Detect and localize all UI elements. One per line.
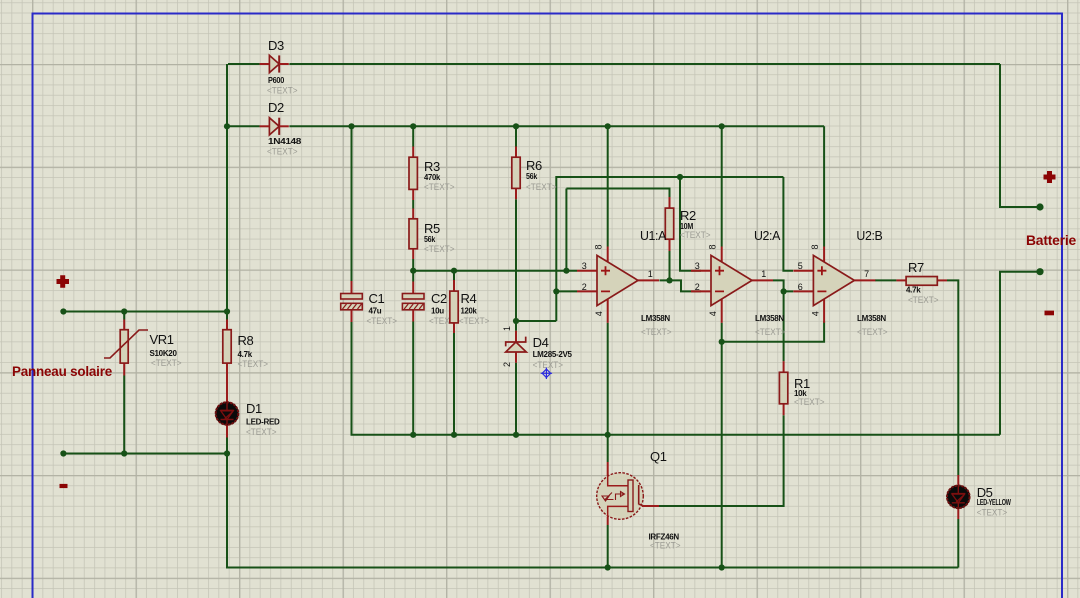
pin stub Q1 source bbox=[607, 517, 609, 525]
pin stub R6 top bbox=[515, 147, 517, 158]
LED D5 bbox=[947, 485, 971, 509]
resistor R3 bbox=[409, 157, 417, 189]
wire D4 top row y=321 bbox=[516, 320, 556, 322]
svg-text:8: 8 bbox=[810, 244, 820, 249]
wire U2:A pin8 drop bbox=[721, 126, 723, 246]
junction dots solar minus row bbox=[60, 450, 66, 456]
wire VR1 column bbox=[123, 312, 125, 320]
voltage reference D4 zener symbol bbox=[506, 337, 526, 347]
pin stub R3 top bbox=[412, 147, 414, 158]
svg-text:4: 4 bbox=[810, 311, 820, 316]
svg-text:1N4148: 1N4148 bbox=[268, 137, 302, 146]
svg-text:LM358N: LM358N bbox=[857, 314, 886, 323]
junction dots ground rail bbox=[410, 432, 416, 438]
svg-text:U2:B: U2:B bbox=[856, 228, 882, 243]
wire node to R1 top bbox=[783, 291, 785, 361]
op-amp U2:B power pin 4 stub bbox=[823, 299, 825, 323]
svg-text:<TEXT>: <TEXT> bbox=[977, 508, 1008, 518]
wire node row y=270.7 R5/C2/R4 to U1:A pin3 bbox=[413, 270, 577, 272]
resistor R7 bbox=[906, 277, 937, 286]
svg-text:2: 2 bbox=[502, 362, 512, 367]
wire C1 top drop bbox=[351, 126, 353, 281]
wire R6 top drop bbox=[515, 126, 517, 146]
op-amp U2:A plus minus marks bbox=[715, 266, 724, 291]
pin stub R5 bottom bbox=[412, 249, 414, 259]
wire U2:B pin8 drop bbox=[823, 126, 825, 246]
wire C2 top stub bbox=[412, 271, 414, 282]
capacitor C2 bbox=[402, 294, 424, 300]
svg-text:4: 4 bbox=[708, 311, 718, 316]
pin stubs VR1 bbox=[123, 320, 125, 330]
pin stubs R4 bbox=[453, 280, 455, 291]
svg-text:<TEXT>: <TEXT> bbox=[650, 541, 681, 551]
junction dot U2A out node bbox=[781, 288, 787, 294]
op-amp U1:A input pin stubs bbox=[577, 270, 597, 272]
svg-text:<TEXT>: <TEXT> bbox=[246, 427, 277, 437]
op-amp U1:A power pin 4 stub bbox=[607, 299, 609, 323]
wire Q1 source to bottom rail bbox=[607, 525, 609, 568]
svg-text:<TEXT>: <TEXT> bbox=[533, 360, 564, 370]
wire C2 bottom drop bbox=[412, 322, 414, 435]
wire R2 bottom to U1:A output node bbox=[669, 251, 671, 280]
wire solar plus row y=311.5 bbox=[63, 311, 227, 313]
solar minus symbol bbox=[60, 484, 68, 488]
wire battery minus branch bbox=[1000, 272, 1040, 435]
svg-text:R6: R6 bbox=[526, 158, 542, 173]
svg-text:LED-YELLOW: LED-YELLOW bbox=[977, 498, 1012, 507]
svg-text:D4: D4 bbox=[533, 335, 549, 350]
op-amp U1:A triangle bbox=[597, 255, 638, 305]
pin stubs D5 bbox=[957, 475, 959, 485]
junction dot D4 node bbox=[513, 318, 519, 324]
pin stub R1 bottom bbox=[783, 404, 785, 415]
wire R7 right to D5 column bbox=[947, 280, 958, 475]
wire D5 bottom stub bbox=[957, 519, 959, 568]
op-amp U1:A plus minus marks bbox=[601, 266, 610, 291]
wire solar minus row y=453.5 bbox=[63, 453, 227, 455]
solar plus symbol bbox=[57, 275, 70, 288]
svg-text:3: 3 bbox=[582, 261, 587, 271]
wire R6 bottom to D4 node bbox=[515, 199, 517, 331]
op-amp U2:A power pin 8 stub bbox=[721, 247, 723, 263]
svg-text:4: 4 bbox=[594, 311, 604, 316]
svg-text:LM285-2V5: LM285-2V5 bbox=[533, 350, 573, 359]
svg-text:56k: 56k bbox=[424, 235, 436, 244]
pin stub Q1 drain bbox=[607, 462, 609, 476]
svg-text:<TEXT>: <TEXT> bbox=[459, 316, 490, 326]
wire y=188.5 to R2 top bbox=[566, 189, 669, 198]
MOSFET Q1 circle bbox=[597, 473, 644, 520]
svg-text:6: 6 bbox=[798, 282, 803, 292]
resistor R8 bbox=[223, 330, 231, 363]
svg-text:1: 1 bbox=[502, 326, 512, 331]
pin stubs C2 bbox=[412, 282, 414, 294]
wire D2 cathode V+ rail y=126.3 bbox=[227, 125, 260, 127]
svg-text:120k: 120k bbox=[461, 307, 478, 316]
capacitor C1 bbox=[341, 294, 363, 300]
diode D3 bbox=[269, 55, 279, 72]
svg-text:LM358N: LM358N bbox=[755, 314, 784, 323]
op-amp U2:B output stub bbox=[854, 279, 875, 281]
pin stubs D4 bbox=[515, 331, 517, 342]
svg-text:<TEXT>: <TEXT> bbox=[424, 244, 455, 254]
junction dot reference net bbox=[677, 174, 683, 180]
pin stubs R7 bbox=[896, 279, 906, 281]
wire R1 bottom to Q1 gate bbox=[659, 415, 784, 506]
svg-text:2: 2 bbox=[582, 282, 587, 292]
wire U1:A pin2 branch bbox=[556, 290, 577, 292]
svg-text:Batterie: Batterie bbox=[1026, 233, 1077, 248]
pin stubs R8 bbox=[226, 320, 228, 330]
svg-text:<TEXT>: <TEXT> bbox=[151, 358, 182, 368]
blue origin marker bbox=[541, 368, 552, 379]
wire R5 bottom stub bbox=[412, 259, 414, 271]
svg-text:1: 1 bbox=[761, 269, 766, 279]
svg-text:<TEXT>: <TEXT> bbox=[755, 327, 786, 337]
pin stubs C1 bbox=[351, 281, 353, 294]
op-amp U1:A power pin 8 stub bbox=[607, 247, 609, 263]
svg-text:<TEXT>: <TEXT> bbox=[526, 182, 557, 192]
resistor R4 bbox=[450, 291, 458, 323]
svg-text:LED-RED: LED-RED bbox=[246, 418, 280, 427]
op-amp U2:A input pin stubs bbox=[691, 270, 711, 272]
svg-text:1: 1 bbox=[648, 269, 653, 279]
pin stub Q1 gate bbox=[642, 505, 659, 507]
wire reference net y=177 bbox=[556, 177, 783, 321]
svg-text:VR1: VR1 bbox=[150, 332, 174, 347]
wire U1:A pin4 drop / Q1 drain column bbox=[607, 323, 609, 462]
svg-text:D1: D1 bbox=[246, 401, 262, 416]
svg-text:Q1: Q1 bbox=[650, 449, 667, 464]
LED D1 bbox=[215, 402, 239, 426]
wire D4 bottom drop bbox=[515, 363, 517, 435]
svg-text:<TEXT>: <TEXT> bbox=[424, 182, 455, 192]
svg-text:<TEXT>: <TEXT> bbox=[908, 295, 939, 305]
wire bottom rail y=567.5 bbox=[227, 454, 958, 568]
junction dots bottom rail bbox=[605, 564, 611, 570]
junction dots V+ rail bbox=[224, 123, 230, 129]
junction dots solar plus row bbox=[60, 308, 66, 314]
svg-text:U2:A: U2:A bbox=[754, 228, 781, 243]
svg-text:470k: 470k bbox=[424, 173, 441, 182]
wire x=566.4 from R2 row to pin3 row bbox=[565, 189, 567, 271]
svg-text:R8: R8 bbox=[238, 333, 254, 348]
svg-text:<TEXT>: <TEXT> bbox=[857, 327, 888, 337]
resistor R1 bbox=[779, 372, 787, 404]
pin stub R5 top bbox=[412, 209, 414, 219]
svg-text:56k: 56k bbox=[526, 172, 538, 181]
op-amp U2:A power pin 4 stub bbox=[721, 299, 723, 323]
wire U1:A pin8 drop bbox=[607, 126, 609, 246]
svg-text:2: 2 bbox=[695, 282, 700, 292]
wire R8 top stub bbox=[226, 312, 228, 320]
junction dot V- jog bbox=[719, 339, 725, 345]
wire R3 top drop bbox=[412, 126, 414, 146]
wire left column x=227 from D3 rail to solar plus node bbox=[226, 64, 228, 312]
battery plus symbol bbox=[1044, 171, 1056, 183]
resistor R5 bbox=[409, 219, 417, 249]
svg-text:<TEXT>: <TEXT> bbox=[367, 316, 398, 326]
junction dot U1 pin2 branch bbox=[553, 288, 559, 294]
svg-text:R4: R4 bbox=[461, 291, 477, 306]
wire right drop to battery plus bbox=[1000, 64, 1040, 207]
svg-text:4.7k: 4.7k bbox=[238, 350, 253, 359]
thermistor VR1 strike line bbox=[104, 330, 148, 358]
svg-text:8: 8 bbox=[594, 244, 604, 249]
op-amp U2:B power pin 8 stub bbox=[823, 247, 825, 263]
wire R4 bottom drop bbox=[453, 333, 455, 435]
svg-text:4.7k: 4.7k bbox=[906, 286, 921, 295]
svg-text:R3: R3 bbox=[424, 159, 440, 174]
thermistor VR1 body bbox=[120, 330, 128, 363]
svg-text:<TEXT>: <TEXT> bbox=[267, 147, 298, 157]
svg-text:<TEXT>: <TEXT> bbox=[267, 86, 298, 96]
pin stub D1 bottom bbox=[226, 425, 228, 438]
pin stub R2 bottom bbox=[669, 239, 671, 251]
svg-text:7: 7 bbox=[864, 269, 869, 279]
diode D2 bbox=[269, 118, 279, 135]
svg-text:3: 3 bbox=[695, 261, 700, 271]
svg-text:R2: R2 bbox=[680, 208, 696, 223]
svg-text:C2: C2 bbox=[431, 291, 447, 306]
op-amp U1:A output stub bbox=[638, 279, 659, 281]
op-amp U2:A output stub bbox=[752, 279, 773, 281]
resistor R6 bbox=[512, 157, 520, 188]
pin stub R3 bottom bbox=[412, 189, 414, 200]
wire U2:A pin4 drop to bottom rail bbox=[721, 323, 723, 568]
svg-text:8: 8 bbox=[708, 244, 718, 249]
wire x=783.4 drop to U2:B pin5 bbox=[783, 177, 793, 271]
svg-text:47u: 47u bbox=[369, 307, 382, 316]
op-amp U2:B plus minus marks bbox=[817, 266, 826, 291]
pin stub R6 bottom bbox=[515, 188, 517, 199]
svg-text:<TEXT>: <TEXT> bbox=[641, 327, 672, 337]
wire x=680 drop to U2:A pin3 bbox=[680, 177, 701, 271]
op-amp U2:B input pin stubs bbox=[793, 270, 813, 272]
svg-text:S10K20: S10K20 bbox=[150, 349, 178, 358]
svg-text:D3: D3 bbox=[268, 38, 284, 53]
svg-text:U1:A: U1:A bbox=[640, 228, 667, 243]
svg-text:<TEXT>: <TEXT> bbox=[794, 397, 825, 407]
wire U2:A output jog to U2:B pin6 bbox=[773, 280, 793, 291]
battery terminal dots bbox=[1036, 203, 1043, 210]
MOSFET Q1 internal symbol bbox=[608, 476, 628, 517]
svg-text:R5: R5 bbox=[424, 221, 440, 236]
svg-text:D2: D2 bbox=[268, 100, 284, 115]
junction dots pin3 row bbox=[410, 268, 416, 274]
wire U2:B output to R7 bbox=[875, 279, 896, 281]
svg-text:5: 5 bbox=[798, 261, 803, 271]
pin stub R2 top bbox=[669, 197, 671, 208]
svg-text:Panneau solaire: Panneau solaire bbox=[12, 364, 113, 379]
op-amp U2:B triangle bbox=[813, 255, 854, 305]
junction dot U1 output bbox=[666, 277, 672, 283]
svg-text:P600: P600 bbox=[268, 76, 285, 85]
svg-text:R7: R7 bbox=[908, 260, 924, 275]
svg-text:10u: 10u bbox=[431, 307, 444, 316]
resistor R2 bbox=[665, 208, 673, 239]
svg-text:<TEXT>: <TEXT> bbox=[238, 359, 269, 369]
wire V- jog y=341.8 to U2:B pin4 bbox=[722, 321, 824, 341]
pin stub R1 top bbox=[783, 361, 785, 372]
svg-text:LM358N: LM358N bbox=[641, 314, 670, 323]
wire ground rail y=434.8 bbox=[352, 322, 1001, 435]
svg-text:<TEXT>: <TEXT> bbox=[680, 230, 711, 240]
wire R3-R5 series link bbox=[412, 200, 414, 209]
op-amp U2:A triangle bbox=[711, 255, 752, 305]
wire D1 bottom stub bbox=[226, 438, 228, 454]
wire D3 anode rail y=64 bbox=[228, 63, 260, 65]
wire R4 top stub bbox=[453, 271, 455, 280]
svg-text:C1: C1 bbox=[369, 291, 385, 306]
wire U1:A output jog to U2:A pin2 bbox=[660, 280, 702, 291]
battery minus symbol bbox=[1045, 311, 1055, 316]
